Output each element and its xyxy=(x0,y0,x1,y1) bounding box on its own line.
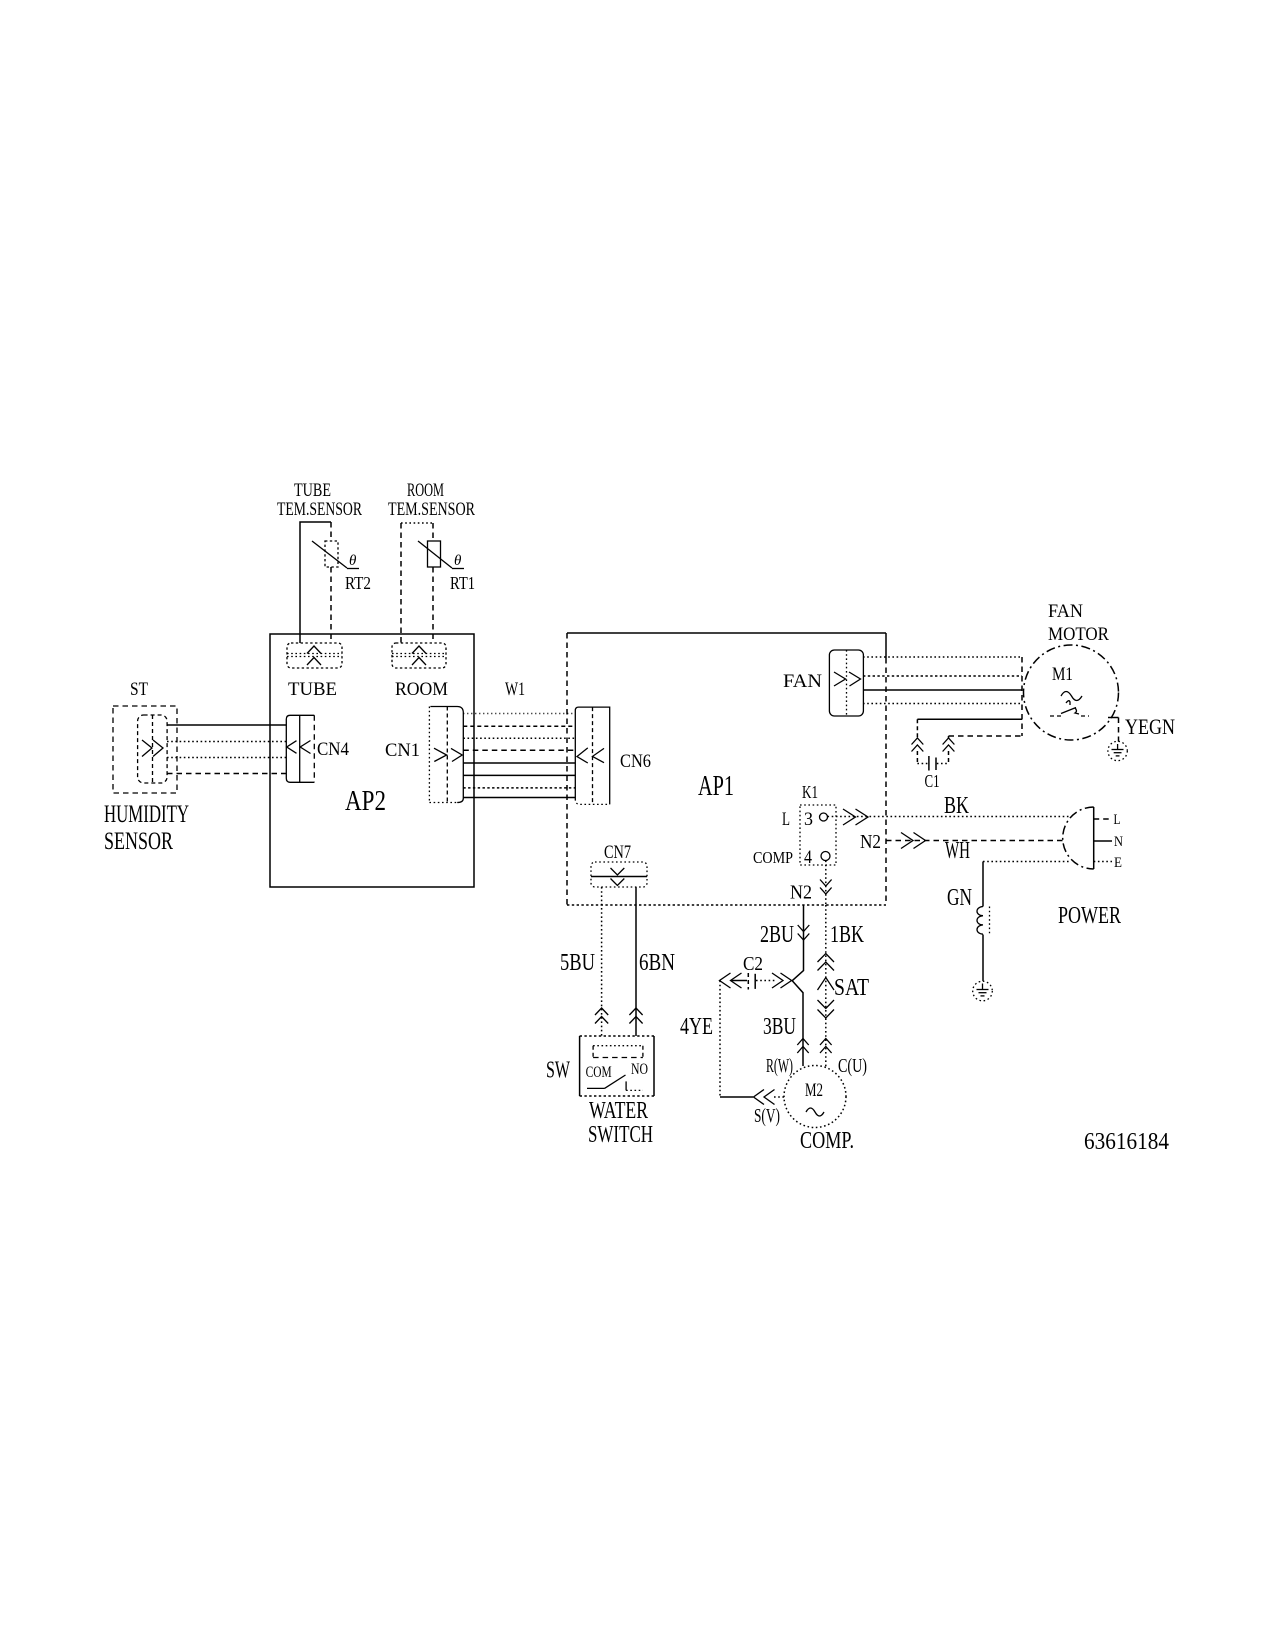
svg-text:HUMIDITY: HUMIDITY xyxy=(104,801,189,828)
svg-text:FAN: FAN xyxy=(1048,601,1083,622)
cable W1 xyxy=(463,679,575,798)
svg-text:YEGN: YEGN xyxy=(1125,714,1175,739)
svg-text:SW: SW xyxy=(546,1058,570,1084)
water switch SW xyxy=(546,1036,654,1148)
connector ROOM xyxy=(392,643,448,700)
svg-text:C1: C1 xyxy=(925,771,940,791)
wire N2 WH to plug xyxy=(860,831,1063,864)
wire 4YE xyxy=(680,981,785,1128)
svg-text:SAT: SAT xyxy=(834,975,869,1001)
svg-text:N2: N2 xyxy=(790,882,812,904)
svg-text:W1: W1 xyxy=(505,679,525,700)
svg-text:C2: C2 xyxy=(743,953,763,975)
svg-text:COMP: COMP xyxy=(753,848,793,867)
part number 63616184 xyxy=(1084,1129,1169,1155)
svg-text:K1: K1 xyxy=(802,782,818,802)
wire tube sensor leads xyxy=(300,522,331,643)
wire GN earth lead xyxy=(947,862,1070,912)
thermistor RT1 xyxy=(418,541,475,593)
wire 6BN xyxy=(629,887,675,1036)
svg-text:TUBE: TUBE xyxy=(294,480,331,501)
wire 1BK SAT xyxy=(818,905,870,1077)
svg-text:GN: GN xyxy=(947,885,972,911)
svg-text:FAN: FAN xyxy=(783,671,822,692)
svg-text:CN7: CN7 xyxy=(604,842,631,863)
connector CN7 xyxy=(591,842,647,887)
svg-text:C(U): C(U) xyxy=(838,1055,867,1077)
svg-text:MOTOR: MOTOR xyxy=(1048,624,1109,645)
svg-text:M1: M1 xyxy=(1052,664,1073,685)
svg-text:θ: θ xyxy=(349,553,357,569)
svg-text:CN6: CN6 xyxy=(620,751,651,772)
svg-text:θ: θ xyxy=(454,553,462,569)
fan motor M1 xyxy=(1024,601,1119,740)
capacitor C1 xyxy=(912,719,1023,791)
svg-text:BK: BK xyxy=(944,793,969,819)
connector FAN xyxy=(783,650,863,716)
connector CN1 xyxy=(385,707,463,803)
svg-text:SENSOR: SENSOR xyxy=(104,828,173,855)
svg-text:5BU: 5BU xyxy=(560,950,595,976)
svg-text:4: 4 xyxy=(804,847,812,868)
svg-text:4YE: 4YE xyxy=(680,1014,713,1040)
svg-text:COM: COM xyxy=(586,1064,612,1081)
svg-text:N2: N2 xyxy=(860,831,881,853)
svg-text:WH: WH xyxy=(945,838,970,864)
wire room sensor leads xyxy=(401,523,433,643)
label ROOM TEM.SENSOR xyxy=(388,480,475,520)
svg-text:CN1: CN1 xyxy=(385,740,420,761)
svg-text:2BU: 2BU xyxy=(760,922,794,948)
label TUBE TEM.SENSOR xyxy=(277,480,362,520)
svg-text:WATER: WATER xyxy=(589,1098,648,1124)
svg-text:L: L xyxy=(782,809,790,830)
humidity sensor ST xyxy=(104,679,189,855)
wire BK to plug xyxy=(828,793,1071,825)
wire N2 from contact 4 xyxy=(790,861,832,906)
svg-text:POWER: POWER xyxy=(1058,903,1121,929)
board AP2 xyxy=(270,634,474,887)
capacitor C2 xyxy=(720,953,792,990)
svg-text:COMP.: COMP. xyxy=(800,1128,854,1154)
svg-text:TUBE: TUBE xyxy=(288,679,337,700)
svg-text:CN4: CN4 xyxy=(317,739,349,760)
connector CN6 xyxy=(575,707,651,804)
svg-text:ROOM: ROOM xyxy=(407,480,444,501)
ground YEGN xyxy=(1108,741,1127,760)
wire fan motor leads xyxy=(863,657,1022,736)
wire 2BU xyxy=(760,905,809,1077)
svg-text:RT2: RT2 xyxy=(345,573,371,593)
connector TUBE xyxy=(287,643,342,700)
svg-text:NO: NO xyxy=(631,1061,648,1078)
svg-text:N: N xyxy=(1114,834,1123,850)
svg-text:AP2: AP2 xyxy=(345,785,386,817)
svg-text:R(W): R(W) xyxy=(766,1055,793,1077)
svg-text:6BN: 6BN xyxy=(639,950,675,976)
inductor ferrite GN xyxy=(977,907,990,982)
svg-text:TEM.SENSOR: TEM.SENSOR xyxy=(277,499,362,520)
svg-text:M2: M2 xyxy=(805,1080,823,1101)
relay K1 xyxy=(753,782,836,868)
svg-text:RT1: RT1 xyxy=(450,573,475,593)
svg-text:63616184: 63616184 xyxy=(1084,1129,1169,1155)
wire 5BU xyxy=(560,887,608,1036)
connector CN4 xyxy=(286,715,349,782)
svg-text:ROOM: ROOM xyxy=(395,679,448,700)
compressor M2 xyxy=(784,1066,854,1155)
svg-text:E: E xyxy=(1114,855,1122,871)
power plug xyxy=(1058,807,1123,929)
ground GN earth xyxy=(973,981,993,1001)
wire ST to CN4 xyxy=(167,725,286,774)
svg-text:ST: ST xyxy=(130,679,148,700)
thermistor RT2 xyxy=(312,541,371,593)
svg-text:SWITCH: SWITCH xyxy=(588,1122,653,1148)
wire YEGN ground lead xyxy=(1108,714,1175,742)
svg-text:3BU: 3BU xyxy=(763,1014,796,1040)
svg-text:AP1: AP1 xyxy=(698,770,734,802)
svg-text:S(V): S(V) xyxy=(754,1105,780,1127)
svg-text:3: 3 xyxy=(804,809,813,830)
board AP1 xyxy=(567,633,886,905)
svg-text:1BK: 1BK xyxy=(830,922,864,948)
svg-text:TEM.SENSOR: TEM.SENSOR xyxy=(388,499,475,520)
svg-text:L: L xyxy=(1114,812,1121,828)
